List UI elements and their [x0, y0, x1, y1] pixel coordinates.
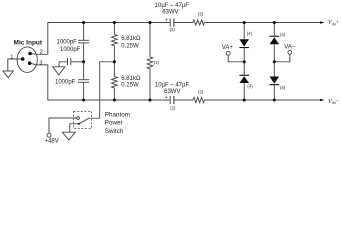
- wire top bus left segment (pin2 line to electrolytic): [30, 23, 170, 55]
- connector XLR Mic Input: [17, 47, 37, 72]
- node bottom bus x114.4: [113, 98, 116, 101]
- svg-text:1: 1: [10, 55, 13, 61]
- svg-text:VA−: VA−: [284, 44, 296, 50]
- diode rail left wires: [243, 23, 245, 40]
- node top bus x83.6: [82, 21, 85, 24]
- wire cap chain bottom: [83, 83, 85, 100]
- diode D bottom-left: [239, 75, 249, 76]
- svg-text:63WV: 63WV: [162, 9, 178, 15]
- svg-text:0.25W: 0.25W: [121, 43, 139, 49]
- switch lever: [79, 118, 89, 124]
- capacitor electrolytic top plates: [169, 18, 171, 26]
- wire bottom bus between cap and resistor: [174, 99, 193, 101]
- node top bus x114.4: [113, 21, 116, 24]
- arrowhead Vin+: [320, 21, 325, 24]
- svg-text:+: +: [165, 18, 168, 24]
- svg-text:+: +: [165, 95, 168, 101]
- capacitor C 1000pF middle plates: [67, 58, 69, 65]
- wire bottom bus left segment (pin3 line to electrolytic): [30, 63, 170, 100]
- node top bus x150: [148, 21, 151, 24]
- svg-text:−: −: [336, 98, 339, 103]
- wire switch to ground: [70, 124, 79, 132]
- svg-text:(4): (4): [280, 32, 286, 37]
- resistor (3) top series: [193, 20, 205, 25]
- resistor (3) bottom series: [193, 97, 205, 102]
- wire +48V feed: [49, 118, 77, 133]
- node switch pivot: [78, 123, 80, 125]
- wire cap chain middle: [83, 43, 85, 79]
- node mid x244 VA+: [243, 60, 246, 63]
- capacitor chain vertical wire top (bus to C top plate): [83, 23, 85, 41]
- node bottom bus x274: [273, 98, 276, 101]
- wire VA-: [274, 54, 290, 61]
- node pin1: [21, 57, 25, 61]
- diode rail right wires: [273, 23, 275, 36]
- svg-text:Mic Input: Mic Input: [14, 40, 43, 47]
- svg-text:(3): (3): [198, 89, 204, 94]
- switch contact circle: [77, 117, 80, 120]
- svg-text:1000pF: 1000pF: [60, 47, 81, 53]
- terminal +48V: [47, 133, 51, 137]
- svg-text:(4): (4): [247, 84, 253, 89]
- resistor (1) common mode: [149, 23, 151, 57]
- arrowhead Vin-: [320, 99, 325, 102]
- capacitor electrolytic bottom plates: [169, 96, 171, 104]
- svg-text:+: +: [336, 19, 339, 24]
- svg-text:10µF – 47µF: 10µF – 47µF: [155, 82, 190, 88]
- switch box dashed: [74, 111, 92, 128]
- ground middle cap: [53, 67, 65, 75]
- svg-text:Power: Power: [105, 120, 123, 127]
- svg-text:1000pF: 1000pF: [55, 79, 76, 85]
- node mid x274 VA-: [273, 60, 276, 63]
- svg-text:2: 2: [40, 49, 43, 55]
- terminal VA-: [288, 51, 292, 55]
- svg-text:(1): (1): [154, 60, 160, 65]
- node mid x114.4: [113, 60, 116, 63]
- wire bottom bus right segment to arrow: [205, 99, 321, 101]
- svg-text:0.25W: 0.25W: [121, 83, 139, 89]
- svg-text:Switch: Switch: [105, 128, 124, 135]
- svg-text:VA+: VA+: [222, 45, 234, 51]
- svg-text:(2): (2): [170, 106, 176, 111]
- svg-text:6.81kΩ: 6.81kΩ: [121, 76, 141, 82]
- capacitor C 1000pF bottom plates: [78, 79, 89, 81]
- node top bus x274: [273, 21, 276, 24]
- node mid x83.6: [82, 60, 85, 63]
- svg-text:3: 3: [39, 60, 42, 66]
- node bottom bus x83.6: [82, 98, 85, 101]
- resistor R 6.81k bottom: [113, 62, 115, 77]
- svg-text:(4): (4): [247, 31, 253, 36]
- ground pin1: [3, 71, 14, 78]
- node bottom bus x150: [148, 98, 151, 101]
- wire phantom feed horizontal: [89, 62, 114, 118]
- diode D top-left: [239, 39, 249, 46]
- svg-text:10µF – 47µF: 10µF – 47µF: [155, 3, 190, 9]
- wire top bus right segment to arrow: [205, 22, 321, 24]
- resistor R 6.81k top: [113, 23, 115, 35]
- wire VA+: [228, 55, 244, 62]
- terminal VA+: [226, 51, 230, 55]
- capacitor C 1000pF top plates: [78, 39, 89, 41]
- diode D bottom-right: [270, 77, 280, 84]
- svg-text:Phantom: Phantom: [105, 112, 130, 119]
- svg-text:+48V: +48V: [45, 138, 59, 144]
- node pin3: [28, 61, 32, 65]
- svg-text:6.81kΩ: 6.81kΩ: [121, 36, 141, 42]
- svg-text:(2): (2): [170, 27, 176, 32]
- wire top bus between cap and resistor: [174, 22, 193, 24]
- capacitor C 1000pF middle horizontal wires: [59, 62, 67, 67]
- svg-text:(4): (4): [280, 85, 286, 90]
- ground switch: [62, 132, 75, 140]
- node top bus x244: [243, 21, 246, 24]
- wire pin1 to ground: [8, 59, 23, 71]
- diode D top-right: [270, 36, 280, 37]
- svg-text:1000pF: 1000pF: [57, 39, 78, 45]
- svg-text:(3): (3): [198, 12, 204, 17]
- node bottom bus x244: [243, 98, 246, 101]
- node pin2: [28, 52, 32, 56]
